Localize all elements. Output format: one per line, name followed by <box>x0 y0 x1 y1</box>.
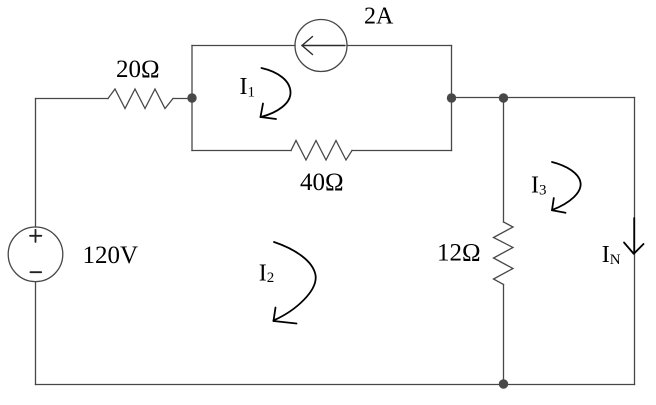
voltage source plus sign <box>30 230 41 242</box>
wire node B to right edge (y=98) <box>452 97 635 99</box>
svg-text:20Ω: 20Ω <box>116 56 160 83</box>
wire inner loop right vertical (x=451, y=45..149) <box>451 46 453 151</box>
voltage source minus sign <box>30 271 41 273</box>
wire inner loop left vertical (x=192, y=45..149) <box>191 46 193 151</box>
wire left vertical lower (x=35, y=282..384) <box>35 282 37 385</box>
mesh arrow I2 <box>274 242 316 324</box>
svg-text:120V: 120V <box>83 242 139 269</box>
current source U1 circle 2A <box>295 20 347 72</box>
node B dot (451,98) <box>447 93 456 102</box>
wire inner loop bottom left segment <box>192 150 291 152</box>
wire right vertical (x=634) <box>634 98 636 385</box>
wire 12ohm branch lower (x=503.5, y=284..384) <box>503 285 505 385</box>
wire inner loop top left segment <box>192 45 295 47</box>
mesh arrow I1 <box>261 68 291 119</box>
wire left vertical upper (x=35, y=98..227) <box>35 99 37 228</box>
node D dot (503.5,384) <box>499 379 508 388</box>
resistor R 40ohm zigzag <box>291 141 352 161</box>
current source arrow pointing left <box>302 37 345 55</box>
arrow IN on right wire <box>624 218 644 254</box>
mesh arrow I3 <box>552 162 581 213</box>
voltage source V1 circle 120V <box>8 227 63 282</box>
wire inner loop top right segment <box>347 45 452 47</box>
node C dot (503.5,98) <box>499 93 508 102</box>
wire 20ohm to node A <box>173 98 192 100</box>
wire top-left horizontal before 20ohm <box>36 98 109 100</box>
svg-text:2A: 2A <box>364 4 394 30</box>
resistor R 12ohm vertical zigzag <box>494 222 514 285</box>
node A dot (192,98) <box>187 93 196 102</box>
svg-text:40Ω: 40Ω <box>300 169 344 196</box>
resistor R 20ohm zigzag <box>108 89 173 109</box>
wire inner loop bottom right segment <box>352 150 452 152</box>
wire bottom horizontal (y=384) <box>36 384 635 386</box>
svg-text:12Ω: 12Ω <box>437 240 481 267</box>
wire 12ohm branch upper (x=503.5, y=98..222) <box>503 98 505 223</box>
